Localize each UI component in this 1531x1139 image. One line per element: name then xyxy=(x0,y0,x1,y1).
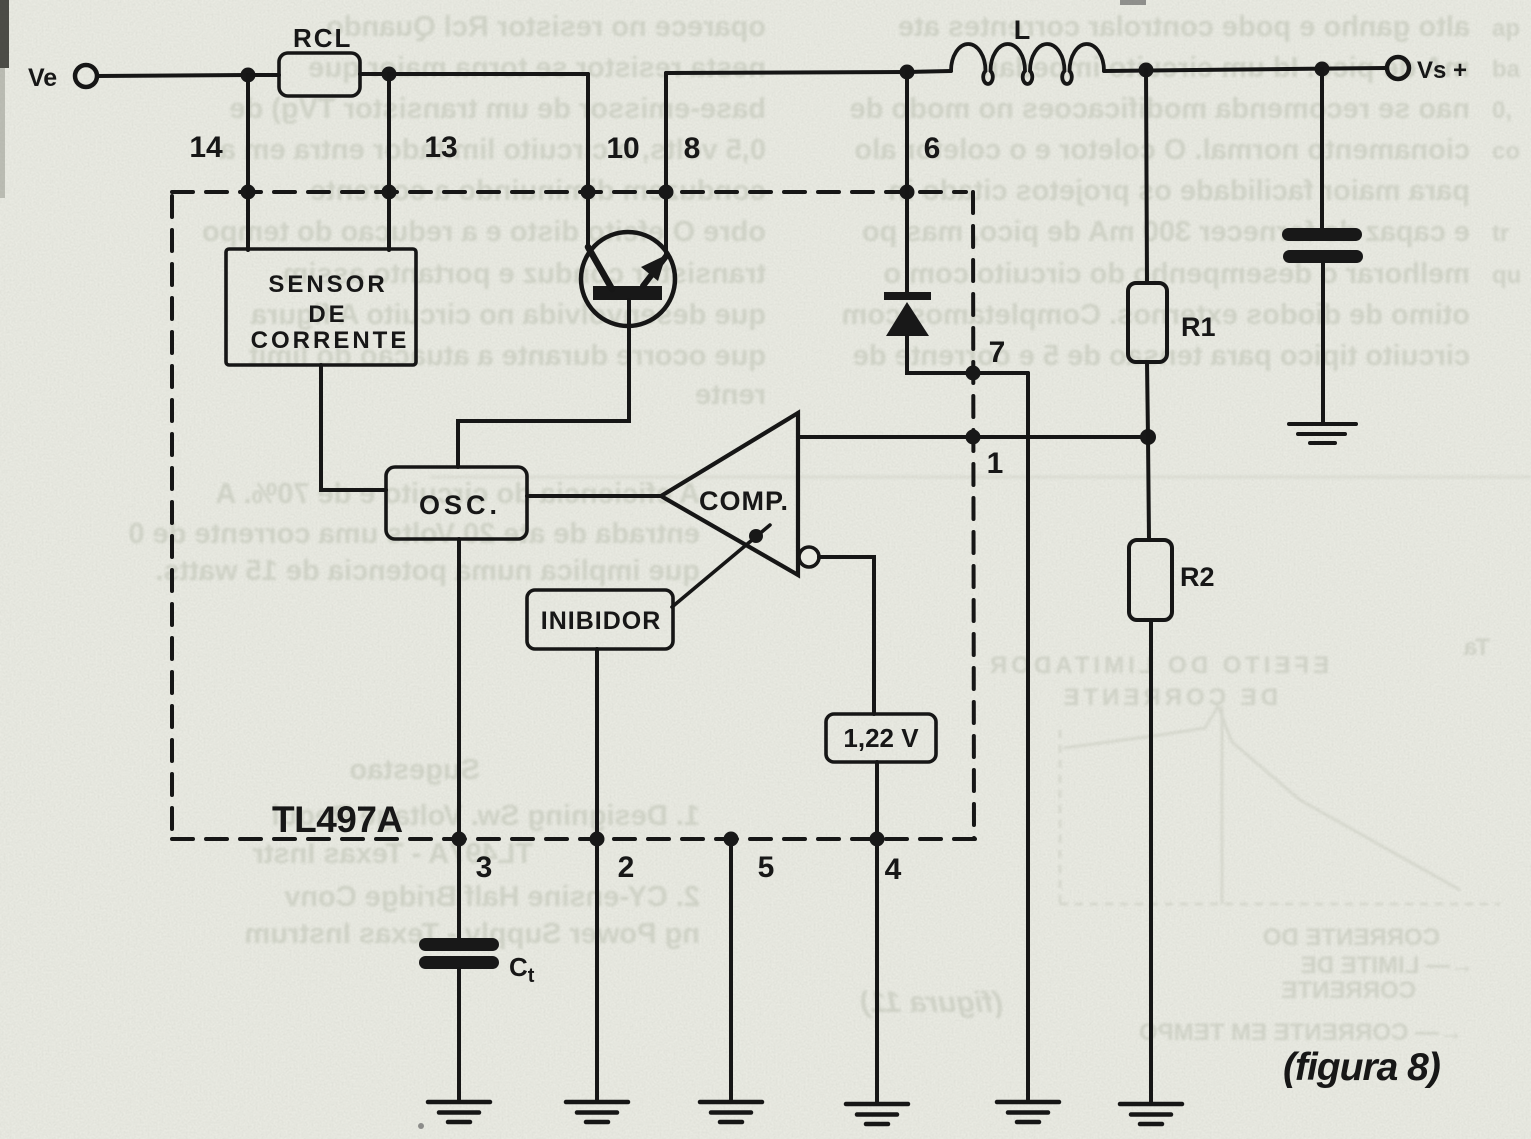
svg-text:rente: rente xyxy=(695,379,766,411)
svg-text:10: 10 xyxy=(606,132,639,165)
node pin 6 on dashed line xyxy=(900,185,915,200)
svg-text:TL497A: TL497A xyxy=(272,799,403,840)
ground under pin 5 xyxy=(700,1102,762,1122)
svg-text:co: co xyxy=(1492,138,1520,165)
wire pin 8 vertical xyxy=(664,73,668,254)
svg-text:2: 2 xyxy=(618,851,635,884)
node at pin 6 top xyxy=(900,65,915,80)
svg-text:Ve: Ve xyxy=(28,64,57,92)
svg-text:(figura 11): (figura 11) xyxy=(860,986,1003,1019)
inductor L xyxy=(951,44,1104,84)
svg-text:R1: R1 xyxy=(1181,312,1216,342)
node pin 4 xyxy=(870,832,885,847)
wire node to RCL xyxy=(248,73,279,77)
node pin 10 on dashed line xyxy=(581,185,596,200)
svg-text:tr: tr xyxy=(1492,220,1509,247)
wire pin 8 to node 6 xyxy=(666,72,907,73)
box sensor de corrente xyxy=(226,249,416,365)
svg-text:para maior facilidade os proje: para maior facilidade os projetos citado… xyxy=(888,175,1470,207)
svg-text:circuito tipico para tensao de: circuito tipico para tensao de 5 e corre… xyxy=(853,340,1470,372)
svg-text:3: 3 xyxy=(476,851,493,884)
wire pin 3 osc to Ct xyxy=(457,539,461,940)
wire R1 top lead xyxy=(1146,70,1147,283)
svg-text:13: 13 xyxy=(424,131,457,164)
svg-text:1,22 V: 1,22 V xyxy=(843,723,919,753)
ground under capacitor xyxy=(1289,424,1356,443)
wire RCL to node 13 xyxy=(360,72,389,76)
svg-text:INIBIDOR: INIBIDOR xyxy=(541,607,662,635)
svg-text:qu: qu xyxy=(1492,262,1521,289)
ground under pin 7 wire xyxy=(997,1102,1059,1122)
wire pin 7 to ground xyxy=(1026,373,1030,1102)
svg-text:OSC.: OSC. xyxy=(419,490,501,520)
wire R2 to ground xyxy=(1149,620,1153,1104)
svg-text:oparece no resistor Rcl Quando: oparece no resistor Rcl Quando xyxy=(326,11,766,43)
wire sensor to osc xyxy=(321,365,386,490)
wire R1 bottom lead xyxy=(1147,362,1148,437)
node pin 3 xyxy=(452,832,467,847)
node at pin 13 top xyxy=(382,67,397,82)
wire capacitor to ground xyxy=(1321,263,1325,424)
svg-text:nesta resistor se torna maior: nesta resistor se torna maior que xyxy=(308,52,766,84)
svg-text:ap: ap xyxy=(1492,15,1520,42)
svg-text:6: 6 xyxy=(924,132,941,165)
node pin 8 on dashed line xyxy=(659,185,674,200)
node pin 7 xyxy=(966,366,981,381)
label SENSOR DE CORRENTE xyxy=(251,271,410,354)
wire pin 6 vertical to diode xyxy=(905,72,909,292)
wire Ve to node 14 xyxy=(97,75,248,76)
svg-text:e capaz de fornecer 300 mA de: e capaz de fornecer 300 mA de pico, mas … xyxy=(862,216,1470,248)
ground under pin 2 xyxy=(566,1102,628,1122)
wire diode to pin 7 xyxy=(907,336,1028,373)
wire pin 13 into sensor xyxy=(387,74,391,250)
svg-text:alto ganho e pode controlar co: alto ganho e pode controlar correntes at… xyxy=(898,11,1470,43)
node pin 5 xyxy=(724,832,739,847)
node pin 2 xyxy=(590,832,605,847)
svg-text:EFEITO DO LIMITADOR: EFEITO DO LIMITADOR xyxy=(986,652,1329,679)
svg-text:←— CORRENTE EM TEMPO: ←— CORRENTE EM TEMPO xyxy=(1139,1019,1463,1046)
resistor RCL xyxy=(279,53,360,96)
svg-text:Ta: Ta xyxy=(1463,634,1490,661)
scan edge artifacts xyxy=(0,0,9,68)
diode D1 xyxy=(884,292,931,336)
svg-text:4: 4 xyxy=(885,853,902,886)
inhibit lever dot xyxy=(749,529,763,543)
terminal Ve xyxy=(75,65,97,87)
svg-text:RCL: RCL xyxy=(293,23,352,53)
wire output capacitor top lead xyxy=(1320,69,1324,230)
box INIBIDOR xyxy=(527,590,673,649)
wire pin 4 to ground xyxy=(875,762,879,1104)
svg-text:2. CY-ensine Half Bridge Conv: 2. CY-ensine Half Bridge Conv xyxy=(284,881,700,913)
svg-text:5: 5 xyxy=(758,851,775,884)
svg-text:COMP.: COMP. xyxy=(699,486,789,516)
svg-text:L: L xyxy=(1014,15,1031,45)
svg-text:cionamento normal. O coletor e: cionamento normal. O coletor e o coletor… xyxy=(854,134,1470,166)
svg-text:CORRENTE: CORRENTE xyxy=(251,327,410,354)
svg-text:otimo de diodos externos. Comp: otimo de diodos externos. Completamos co… xyxy=(842,299,1470,331)
resistor R2 xyxy=(1129,540,1172,620)
wire Ct to ground xyxy=(457,969,461,1102)
comparator COMP. xyxy=(661,413,798,575)
wire transistor base to osc xyxy=(458,300,629,467)
terminal Vs+ xyxy=(1387,57,1409,79)
capacitor Ct xyxy=(419,938,499,969)
wire pin 2 inibidor to ground xyxy=(595,649,599,1102)
svg-text:SENSOR: SENSOR xyxy=(268,271,387,298)
svg-text:Vs +: Vs + xyxy=(1417,57,1467,84)
svg-text:←— LIMITE DE: ←— LIMITE DE xyxy=(1301,952,1474,979)
svg-text:R2: R2 xyxy=(1180,562,1215,592)
svg-text:14: 14 xyxy=(189,131,223,164)
svg-text:DE: DE xyxy=(308,301,347,328)
inverting bubble xyxy=(799,547,819,567)
svg-text:obre O efeito disto e a reduca: obre O efeito disto e a reducao do tempo xyxy=(202,216,766,248)
svg-text:que implica numa potencia de 1: que implica numa potencia de 15 watts. xyxy=(155,555,700,587)
svg-text:8: 8 xyxy=(684,132,701,165)
svg-text:CORRENTE DO: CORRENTE DO xyxy=(1263,924,1440,951)
box oscillator OSC. xyxy=(386,467,527,539)
node at R1 top xyxy=(1139,63,1154,78)
wire R2 top lead xyxy=(1148,437,1149,540)
node R1 bottom xyxy=(1140,429,1156,445)
node at output capacitor top xyxy=(1315,62,1330,77)
resistor R1 xyxy=(1128,283,1167,362)
node pin 13 on dashed line xyxy=(382,185,397,200)
wire inductor to terminal Vs xyxy=(1104,68,1386,71)
svg-text:ba: ba xyxy=(1492,56,1521,83)
node pin 1 on dashed line xyxy=(966,430,981,445)
wire node 13 to pin 10 corner xyxy=(389,72,588,76)
transistor Q1 xyxy=(581,232,675,326)
node at pin 14 top xyxy=(241,68,256,83)
svg-text:nao se recomenda modificacoes: nao se recomenda modificacoes no modo de xyxy=(850,93,1470,125)
svg-text:1: 1 xyxy=(987,447,1004,480)
wire comparator to 1,22V xyxy=(819,557,874,714)
wire node 6 to inductor xyxy=(907,71,951,72)
svg-text:DE CORRENTE: DE CORRENTE xyxy=(1059,684,1278,711)
wire pin 1 feedback xyxy=(798,435,1148,439)
wire pin 5 to ground xyxy=(729,839,733,1102)
capacitor C out xyxy=(1282,228,1363,263)
svg-text:(figura 8): (figura 8) xyxy=(1283,1046,1440,1089)
wire pin 10 vertical xyxy=(586,74,590,249)
svg-text:entrada de ate 20 Volts uma co: entrada de ate 20 Volts uma corrente de … xyxy=(128,518,700,550)
svg-text:0,: 0, xyxy=(1492,97,1512,124)
ground under pin 4 xyxy=(846,1104,908,1124)
ground under Ct xyxy=(428,1102,490,1122)
inhibit lever line xyxy=(672,525,770,607)
svg-text:CORRENTE: CORRENTE xyxy=(1281,977,1416,1004)
node pin 14 on dashed line xyxy=(241,185,256,200)
ground under R2 xyxy=(1120,1104,1182,1124)
box reference 1,22 V xyxy=(826,714,936,762)
dashed box TL497A xyxy=(172,192,976,839)
wire osc to comparator xyxy=(527,494,663,498)
svg-text:7: 7 xyxy=(989,336,1006,369)
wire pin 14 into sensor xyxy=(246,75,250,250)
